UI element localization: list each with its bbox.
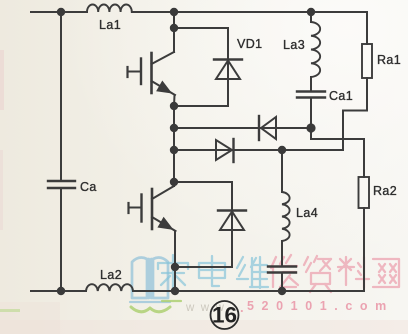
node bottom-left junction bbox=[57, 287, 65, 295]
transistor Q2 gate terminal bar bbox=[127, 203, 129, 213]
wire Ra1 bottom lead bbox=[366, 78, 368, 111]
watermark char 家 bbox=[158, 255, 188, 288]
watermark char 修 bbox=[271, 255, 298, 287]
capacitor Ca1 bbox=[297, 92, 325, 98]
figure number 16 circled bbox=[211, 301, 239, 329]
node row1 left junction bbox=[170, 124, 178, 132]
wire row2 jog up to Ra1 bbox=[343, 111, 367, 151]
wire row1 jog to Ra2 bbox=[311, 128, 364, 177]
resistor Ra2 bbox=[359, 177, 370, 208]
wire Ra2 bottom lead bbox=[363, 208, 365, 291]
diode VD2 cathode bar bbox=[258, 116, 260, 140]
diode VD1 triangle bbox=[216, 61, 240, 80]
node Q1 collector bus junction bbox=[170, 8, 178, 16]
wire row1 left bbox=[174, 127, 311, 129]
wire bottom bus left bbox=[31, 290, 86, 292]
svg-text:.: . bbox=[240, 300, 244, 315]
wire middle column bottom bbox=[174, 231, 176, 291]
wire row2 left bbox=[174, 149, 343, 151]
diode VD4 cathode bar bbox=[218, 209, 246, 211]
svg-text:La3: La3 bbox=[283, 38, 305, 52]
watermark book logo (blue pages) bbox=[130, 258, 170, 302]
transistor Q2 gate lead bbox=[129, 207, 142, 209]
svg-text:La1: La1 bbox=[99, 18, 121, 32]
wire cap bottom lead bbox=[281, 273, 283, 292]
wire Ca1 bottom lead bbox=[310, 98, 312, 129]
watermark char 料 bbox=[338, 257, 369, 288]
svg-text:VD1: VD1 bbox=[237, 37, 263, 51]
scan artifact pink streak left edge bbox=[0, 50, 4, 110]
watermark char 电 bbox=[199, 256, 225, 286]
transistor Q1 gate plate bbox=[140, 59, 142, 85]
transistor Q1 emitter lead bbox=[152, 81, 176, 95]
transistor Q1 gate terminal bar bbox=[126, 67, 128, 77]
svg-text:La2: La2 bbox=[100, 268, 122, 282]
inductor La1 bbox=[87, 5, 132, 12]
node row2 left junction bbox=[170, 146, 178, 154]
wire Ra2 top lead bbox=[363, 139, 365, 177]
wire Q2 clamp branch top bbox=[174, 182, 232, 267]
diode VD3 triangle bbox=[216, 140, 232, 160]
svg-text:Ca: Ca bbox=[80, 180, 97, 194]
transistor Q1 body bar bbox=[150, 53, 153, 93]
resistor Ra1 bbox=[362, 44, 372, 78]
wire left column upper bbox=[60, 12, 62, 181]
watermark book logo (green ribbon) bbox=[131, 301, 181, 312]
node VD1 top junction bbox=[170, 24, 178, 32]
svg-text:La4: La4 bbox=[296, 206, 318, 220]
transistor Q2 emitter arrow bbox=[159, 218, 172, 229]
inductor La3 bbox=[311, 22, 320, 77]
node La3 top junction bbox=[307, 8, 315, 16]
watermark char 网 bbox=[373, 259, 399, 287]
svg-text:Ra2: Ra2 bbox=[373, 184, 397, 198]
transistor Q2 body bar bbox=[151, 189, 154, 229]
wire top bus left bbox=[31, 11, 87, 13]
wire middle column top bbox=[173, 12, 175, 52]
svg-text:520101.com: 520101.com bbox=[247, 299, 394, 313]
transistor Q2 collector lead bbox=[152, 186, 174, 199]
node Q2 clamp bottom junction bbox=[171, 263, 179, 271]
watermark char 资 bbox=[304, 256, 331, 292]
capacitor C (unlabeled, series with La4) bbox=[268, 267, 296, 273]
diode VD3 cathode bar bbox=[232, 139, 234, 162]
transistor Q1 emitter arrow bbox=[157, 82, 170, 93]
node La4 top junction bbox=[278, 146, 286, 154]
junction node dots bbox=[57, 8, 316, 295]
wire middle column mid bbox=[173, 95, 176, 186]
transistor Q2 emitter lead bbox=[152, 217, 176, 231]
node top-left junction bbox=[57, 8, 65, 16]
wire La4 top lead bbox=[281, 150, 283, 192]
inductor La2 bbox=[86, 284, 133, 291]
wire top bus right bbox=[132, 11, 367, 13]
svg-text:16: 16 bbox=[212, 303, 237, 328]
transistor Q2 gate plate bbox=[140, 195, 142, 222]
wire La3 top lead bbox=[310, 12, 312, 22]
capacitor Ca bbox=[48, 181, 75, 188]
wire La3-Ca1 link bbox=[310, 77, 312, 91]
node Q2 collector junction bbox=[170, 178, 178, 186]
diode VD2 triangle bbox=[261, 117, 276, 139]
node VD1 bottom junction bbox=[170, 102, 178, 110]
svg-text:Ca1: Ca1 bbox=[329, 89, 353, 103]
wire bottom bus right bbox=[133, 290, 364, 292]
diode VD4 triangle bbox=[220, 212, 244, 231]
diode VD1 cathode bar bbox=[214, 58, 242, 60]
node La4 bottom junction bbox=[278, 287, 286, 295]
wire Ra1 top lead bbox=[366, 12, 368, 44]
node row1 right junction bbox=[306, 123, 315, 132]
wire La4-cap link bbox=[281, 241, 283, 266]
transistor Q1 gate lead bbox=[128, 71, 142, 73]
scan artifact green streak bottom-left bbox=[0, 309, 20, 312]
watermark char 维 bbox=[237, 257, 268, 288]
node Q2 emitter bus junction bbox=[171, 287, 179, 295]
wire VD1 branch top bbox=[174, 28, 228, 106]
inductor La4 bbox=[282, 192, 290, 241]
wire left column lower bbox=[60, 188, 62, 291]
transistor Q1 collector lead bbox=[152, 52, 175, 64]
svg-text:Ra1: Ra1 bbox=[377, 53, 401, 67]
scan artifact bottom strip bbox=[0, 320, 408, 334]
